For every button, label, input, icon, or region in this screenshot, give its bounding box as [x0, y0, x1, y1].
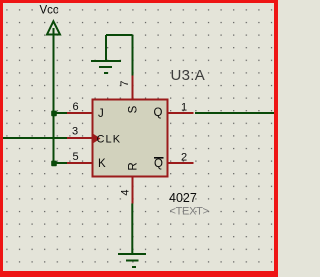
junction at J branch: [51, 111, 57, 117]
pin 1 (Q): [168, 112, 194, 114]
svg-text:3: 3: [72, 126, 78, 138]
ground (top): [91, 35, 133, 73]
svg-text:4027: 4027: [169, 191, 197, 205]
power symbol Vcc (arrow): [47, 21, 60, 34]
pin 2 (Qbar): [168, 162, 194, 164]
svg-text:U3:A: U3:A: [171, 67, 206, 84]
pin 4 (R): [132, 177, 134, 204]
svg-text:1: 1: [181, 102, 187, 114]
wire Vcc vertical: [53, 28, 55, 163]
svg-text:Q: Q: [154, 107, 163, 119]
svg-text:S: S: [127, 105, 139, 113]
svg-text:K: K: [98, 158, 106, 170]
junction at K branch: [51, 161, 57, 167]
ground (bottom): [118, 254, 146, 267]
svg-text:Q: Q: [154, 158, 163, 170]
svg-text:R: R: [127, 162, 139, 170]
svg-text:CLK: CLK: [97, 134, 122, 146]
svg-text:<TEXT>: <TEXT>: [170, 206, 209, 218]
clock input triangle: [94, 134, 101, 143]
pin 7 (S): [132, 76, 134, 100]
wire to J pin: [54, 112, 68, 114]
svg-text:Vcc: Vcc: [40, 5, 59, 17]
wire Q output: [195, 112, 274, 114]
svg-text:2: 2: [181, 152, 187, 164]
svg-text:7: 7: [119, 80, 131, 86]
pin 5 (K): [67, 162, 93, 164]
wire to K pin: [54, 162, 68, 164]
svg-text:5: 5: [72, 151, 78, 163]
flip-flop U3:A body (4027): [93, 100, 168, 177]
wire S pin top: [132, 35, 134, 76]
svg-text:J: J: [98, 108, 104, 120]
wire CLK input: [3, 137, 68, 139]
wire R pin to ground: [131, 204, 133, 255]
svg-text:6: 6: [72, 101, 78, 113]
svg-text:4: 4: [120, 189, 132, 195]
pin 6 (J): [67, 112, 93, 114]
Qbar overline: [154, 157, 164, 159]
pin 3 (CLK): [67, 137, 93, 139]
